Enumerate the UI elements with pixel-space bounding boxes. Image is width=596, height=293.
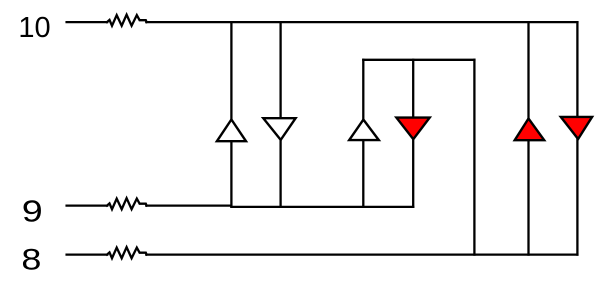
- wire D4 cathode from jumper: [412, 60, 414, 118]
- wire net8 left lead: [67, 253, 108, 255]
- wire D2 anode to net9: [279, 139, 281, 207]
- wire net9 rail: [146, 206, 413, 207]
- wire D3 anode from jumper: [362, 60, 364, 120]
- wire D6 cathode corner from net10: [576, 22, 578, 117]
- wire D5 anode drop from net10: [527, 22, 529, 119]
- wire D5 cathode to net8: [527, 140, 529, 255]
- wire net9 left lead: [67, 204, 108, 206]
- wire D3 cathode to net9: [362, 140, 364, 207]
- wire D1 anode drop from net10: [230, 22, 232, 120]
- wire D6 anode to net8: [576, 138, 578, 254]
- svg-text:8: 8: [21, 243, 41, 276]
- wire D1 cathode to net9: [230, 141, 232, 206]
- LED D3 (up, off): [349, 120, 379, 141]
- wire net10 top rail: [146, 21, 577, 23]
- resistor R8: [107, 247, 147, 258]
- wire net8 rail: [146, 253, 577, 255]
- resistor R9: [107, 198, 147, 209]
- LED D6 (down, lit): [561, 117, 592, 139]
- LED D5 (up, lit): [515, 119, 545, 141]
- svg-text:10: 10: [18, 12, 50, 44]
- LED D2 (down, off): [263, 118, 295, 140]
- LED D1 (up, off): [217, 120, 246, 142]
- wire D2 cathode drop from net10: [279, 22, 281, 119]
- wire net8 jumper drop: [473, 60, 475, 255]
- LED D4 (down, lit): [396, 118, 429, 140]
- svg-text:9: 9: [22, 194, 43, 228]
- wire net8 jumper rail: [363, 59, 474, 61]
- wire net10 left lead: [67, 21, 108, 23]
- resistor R10: [107, 15, 147, 26]
- wire D4 anode to net9: [412, 139, 414, 207]
